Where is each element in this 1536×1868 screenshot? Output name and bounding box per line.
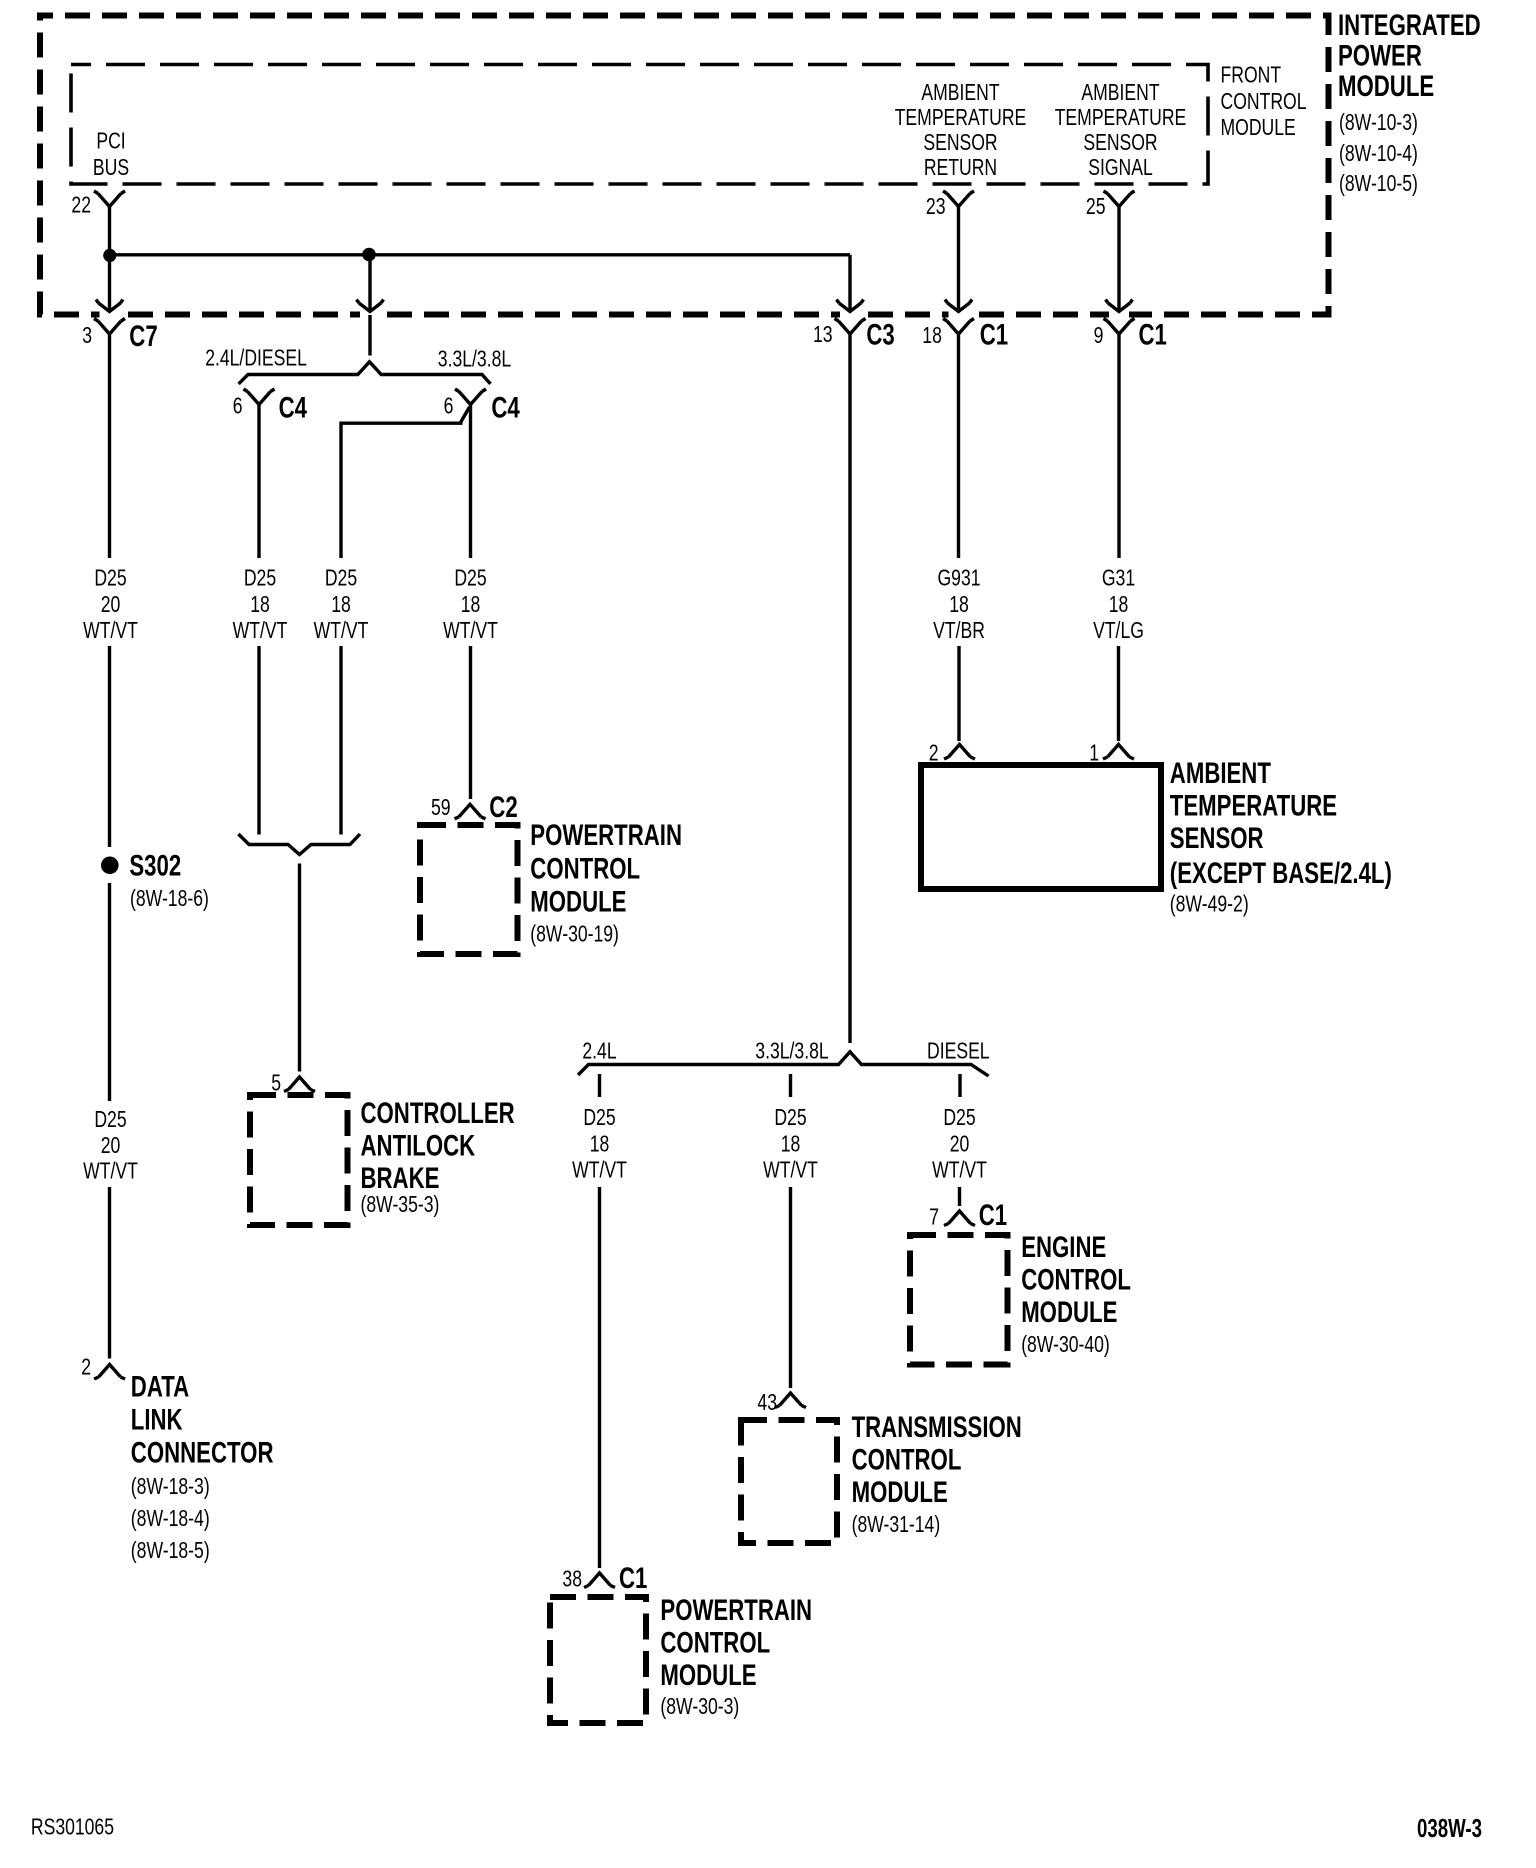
svg-text:AMBIENT: AMBIENT bbox=[1170, 757, 1271, 790]
svg-text:C4: C4 bbox=[491, 392, 520, 425]
svg-text:18: 18 bbox=[590, 1130, 610, 1156]
svg-text:CONTROL: CONTROL bbox=[1221, 88, 1307, 114]
svg-text:(8W-30-19): (8W-30-19) bbox=[530, 921, 619, 947]
svg-text:C1: C1 bbox=[980, 319, 1008, 352]
svg-text:2: 2 bbox=[81, 1354, 91, 1380]
svg-text:PCI: PCI bbox=[96, 127, 125, 153]
svg-text:AMBIENT: AMBIENT bbox=[921, 79, 999, 105]
svg-text:D25: D25 bbox=[94, 1106, 126, 1132]
svg-text:C7: C7 bbox=[129, 320, 157, 353]
svg-text:18: 18 bbox=[1109, 591, 1129, 617]
svg-text:1: 1 bbox=[1089, 740, 1099, 766]
svg-text:WT/VT: WT/VT bbox=[314, 617, 369, 643]
svg-text:20: 20 bbox=[101, 1132, 121, 1158]
svg-text:POWERTRAIN: POWERTRAIN bbox=[660, 1594, 812, 1627]
svg-text:TEMPERATURE: TEMPERATURE bbox=[1055, 104, 1187, 130]
svg-text:18: 18 bbox=[781, 1130, 801, 1156]
svg-text:5: 5 bbox=[271, 1070, 281, 1096]
svg-text:MODULE: MODULE bbox=[660, 1659, 756, 1692]
svg-text:SENSOR: SENSOR bbox=[1083, 129, 1157, 155]
svg-text:G931: G931 bbox=[938, 565, 981, 591]
svg-text:WT/VT: WT/VT bbox=[233, 617, 288, 643]
svg-text:LINK: LINK bbox=[131, 1404, 183, 1437]
svg-text:BUS: BUS bbox=[93, 154, 129, 180]
svg-text:(EXCEPT BASE/2.4L): (EXCEPT BASE/2.4L) bbox=[1170, 857, 1392, 890]
svg-text:WT/VT: WT/VT bbox=[83, 1158, 138, 1184]
svg-text:(8W-18-3): (8W-18-3) bbox=[131, 1473, 210, 1499]
svg-text:CONTROLLER: CONTROLLER bbox=[361, 1097, 515, 1130]
svg-text:D25: D25 bbox=[244, 565, 276, 591]
svg-text:C4: C4 bbox=[279, 392, 308, 425]
svg-text:20: 20 bbox=[101, 591, 121, 617]
svg-text:MODULE: MODULE bbox=[1021, 1296, 1117, 1329]
svg-text:RS301065: RS301065 bbox=[31, 1814, 114, 1840]
svg-text:43: 43 bbox=[757, 1389, 777, 1415]
svg-text:D25: D25 bbox=[943, 1104, 975, 1130]
svg-text:2.4L/DIESEL: 2.4L/DIESEL bbox=[205, 345, 307, 371]
svg-text:9: 9 bbox=[1094, 322, 1104, 348]
svg-text:(8W-18-5): (8W-18-5) bbox=[131, 1537, 210, 1563]
svg-text:22: 22 bbox=[71, 192, 91, 218]
svg-text:VT/LG: VT/LG bbox=[1093, 617, 1144, 643]
svg-text:C1: C1 bbox=[619, 1562, 647, 1595]
svg-text:038W-3: 038W-3 bbox=[1417, 1813, 1482, 1843]
svg-text:VT/BR: VT/BR bbox=[933, 617, 985, 643]
svg-text:(8W-18-6): (8W-18-6) bbox=[130, 885, 209, 911]
svg-text:13: 13 bbox=[813, 321, 833, 347]
svg-text:C1: C1 bbox=[979, 1199, 1007, 1232]
svg-text:AMBIENT: AMBIENT bbox=[1081, 79, 1159, 105]
svg-text:D25: D25 bbox=[454, 565, 486, 591]
svg-text:6: 6 bbox=[444, 393, 454, 419]
svg-text:FRONT: FRONT bbox=[1221, 62, 1282, 88]
svg-text:INTEGRATED: INTEGRATED bbox=[1338, 9, 1481, 42]
svg-text:D25: D25 bbox=[94, 565, 126, 591]
svg-text:DATA: DATA bbox=[131, 1371, 189, 1404]
svg-text:18: 18 bbox=[949, 591, 969, 617]
svg-text:D25: D25 bbox=[774, 1104, 806, 1130]
svg-text:DIESEL: DIESEL bbox=[927, 1038, 990, 1064]
svg-text:RETURN: RETURN bbox=[924, 154, 997, 180]
svg-text:(8W-30-40): (8W-30-40) bbox=[1021, 1331, 1110, 1357]
svg-text:SENSOR: SENSOR bbox=[923, 129, 997, 155]
svg-text:MODULE: MODULE bbox=[852, 1476, 948, 1509]
svg-text:18: 18 bbox=[461, 591, 481, 617]
svg-text:WT/VT: WT/VT bbox=[83, 617, 138, 643]
svg-text:CONNECTOR: CONNECTOR bbox=[131, 1436, 274, 1469]
svg-text:59: 59 bbox=[431, 794, 451, 820]
svg-text:TRANSMISSION: TRANSMISSION bbox=[852, 1411, 1022, 1444]
svg-text:TEMPERATURE: TEMPERATURE bbox=[1170, 790, 1337, 823]
svg-text:3: 3 bbox=[82, 322, 92, 348]
svg-text:CONTROL: CONTROL bbox=[1021, 1264, 1131, 1297]
svg-text:(8W-10-3): (8W-10-3) bbox=[1339, 109, 1418, 135]
svg-text:(8W-35-3): (8W-35-3) bbox=[361, 1191, 440, 1217]
svg-text:WT/VT: WT/VT bbox=[572, 1157, 627, 1183]
svg-text:CONTROL: CONTROL bbox=[530, 853, 640, 886]
svg-text:3.3L/3.8L: 3.3L/3.8L bbox=[755, 1038, 828, 1064]
svg-text:S302: S302 bbox=[129, 849, 181, 882]
svg-text:2.4L: 2.4L bbox=[582, 1038, 616, 1064]
svg-text:G31: G31 bbox=[1102, 565, 1135, 591]
svg-text:3.3L/3.8L: 3.3L/3.8L bbox=[438, 345, 511, 371]
svg-text:ANTILOCK: ANTILOCK bbox=[361, 1130, 476, 1163]
svg-text:(8W-10-4): (8W-10-4) bbox=[1339, 140, 1418, 166]
svg-text:POWER: POWER bbox=[1338, 40, 1422, 73]
svg-text:38: 38 bbox=[562, 1566, 582, 1592]
svg-text:CONTROL: CONTROL bbox=[852, 1444, 962, 1477]
svg-text:MODULE: MODULE bbox=[530, 886, 626, 919]
svg-text:18: 18 bbox=[331, 591, 351, 617]
svg-text:7: 7 bbox=[929, 1204, 939, 1230]
svg-text:WT/VT: WT/VT bbox=[932, 1157, 987, 1183]
svg-text:SENSOR: SENSOR bbox=[1170, 822, 1264, 855]
svg-text:D25: D25 bbox=[583, 1104, 615, 1130]
svg-text:D25: D25 bbox=[325, 565, 357, 591]
svg-text:(8W-30-3): (8W-30-3) bbox=[660, 1693, 739, 1719]
svg-text:(8W-10-5): (8W-10-5) bbox=[1339, 170, 1418, 196]
svg-text:18: 18 bbox=[250, 591, 270, 617]
svg-text:(8W-49-2): (8W-49-2) bbox=[1170, 891, 1249, 917]
svg-text:18: 18 bbox=[922, 322, 942, 348]
svg-text:20: 20 bbox=[950, 1130, 970, 1156]
svg-text:ENGINE: ENGINE bbox=[1021, 1231, 1106, 1264]
svg-text:WT/VT: WT/VT bbox=[443, 617, 498, 643]
svg-text:C3: C3 bbox=[866, 319, 894, 352]
svg-text:TEMPERATURE: TEMPERATURE bbox=[895, 104, 1027, 130]
svg-text:C2: C2 bbox=[489, 791, 517, 824]
svg-text:MODULE: MODULE bbox=[1338, 70, 1434, 103]
svg-text:SIGNAL: SIGNAL bbox=[1088, 154, 1153, 180]
svg-text:MODULE: MODULE bbox=[1221, 114, 1296, 140]
svg-text:(8W-31-14): (8W-31-14) bbox=[852, 1511, 941, 1537]
svg-text:(8W-18-4): (8W-18-4) bbox=[131, 1505, 210, 1531]
svg-text:C1: C1 bbox=[1139, 319, 1167, 352]
svg-text:CONTROL: CONTROL bbox=[660, 1626, 770, 1659]
svg-text:25: 25 bbox=[1086, 193, 1106, 219]
svg-text:WT/VT: WT/VT bbox=[763, 1157, 818, 1183]
svg-text:2: 2 bbox=[929, 740, 939, 766]
svg-text:6: 6 bbox=[233, 393, 243, 419]
svg-text:23: 23 bbox=[926, 193, 946, 219]
svg-text:POWERTRAIN: POWERTRAIN bbox=[530, 819, 682, 852]
